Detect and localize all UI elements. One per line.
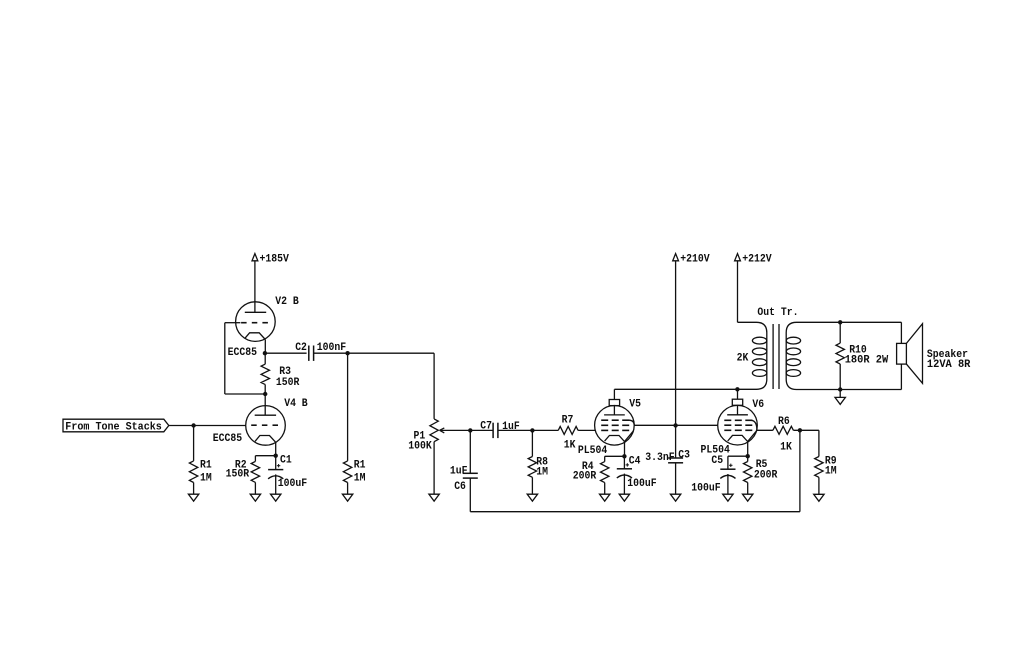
resistor R3 150R: [261, 353, 300, 394]
node wiper junction: [468, 428, 472, 432]
svg-text:C7: C7: [480, 420, 492, 432]
node V6 cathode junction: [746, 454, 750, 458]
svg-text:180R 2W: 180R 2W: [845, 354, 889, 366]
node C7 output junction: [530, 428, 534, 432]
svg-text:100K: 100K: [408, 441, 432, 453]
potentiometer P1 100K: [408, 353, 444, 494]
node R6 output junction: [798, 428, 802, 432]
svg-text:1uF: 1uF: [502, 421, 520, 433]
ground: [619, 494, 629, 501]
ground: [723, 494, 733, 501]
svg-text:+210V: +210V: [680, 253, 710, 265]
ground: [600, 494, 610, 501]
svg-text:100uF: 100uF: [627, 478, 657, 490]
wire: [839, 390, 841, 398]
svg-text:3.3nF: 3.3nF: [645, 452, 675, 464]
capacitor C1 100uF: [268, 455, 307, 495]
svg-text:C6: C6: [454, 481, 466, 493]
node C2 output: [345, 351, 349, 355]
transformer Out Tr primary 2K: [737, 307, 799, 390]
wire feedback riser: [799, 430, 801, 512]
ground: [670, 494, 680, 501]
power +212V: [735, 253, 772, 265]
svg-text:1M: 1M: [825, 466, 837, 478]
svg-text:C1: C1: [280, 455, 292, 467]
node V4 cathode junction: [274, 454, 278, 458]
wire speaker bottom: [840, 389, 901, 391]
resistor R9 1M: [815, 430, 837, 494]
ground: [271, 494, 281, 501]
svg-text:Out Tr.: Out Tr.: [757, 307, 798, 319]
svg-text:From Tone Stacks: From Tone Stacks: [65, 421, 162, 433]
svg-text:100uF: 100uF: [278, 478, 308, 490]
ground: [743, 494, 753, 501]
svg-text:1M: 1M: [354, 473, 366, 485]
resistor R8 1M: [528, 430, 548, 494]
node screen junction: [673, 423, 677, 427]
input tag From Tone Stacks: [63, 419, 169, 433]
wire V5 top cap: [613, 389, 615, 399]
node secondary bottom junction: [838, 387, 842, 391]
wire feedback bottom: [470, 511, 800, 513]
svg-text:12VA 8R: 12VA 8R: [927, 359, 971, 371]
svg-text:PL504: PL504: [578, 445, 608, 457]
svg-text:R6: R6: [778, 416, 790, 428]
resistor R4 200R: [573, 456, 625, 494]
node anode-cathode junction: [263, 351, 267, 355]
node secondary top junction: [838, 320, 842, 324]
svg-text:C3: C3: [678, 449, 690, 461]
capacitor C3 3.3nF: [645, 449, 690, 494]
node input junction: [191, 423, 195, 427]
transformer core: [773, 324, 779, 389]
svg-text:V5: V5: [629, 399, 641, 411]
svg-text:200R: 200R: [573, 471, 597, 483]
wire speaker top: [840, 321, 901, 323]
tube V2 ECC85 triode: [228, 296, 299, 359]
ground: [527, 494, 537, 501]
svg-text:100uF: 100uF: [691, 482, 721, 494]
ground: [835, 397, 845, 404]
svg-text:100nF: 100nF: [317, 342, 347, 354]
svg-text:200R: 200R: [754, 470, 778, 482]
power +185V: [252, 253, 289, 265]
wire input: [169, 425, 246, 427]
svg-text:1K: 1K: [564, 440, 576, 452]
svg-text:+185V: +185V: [260, 253, 290, 265]
capacitor C7 1uF: [470, 420, 532, 438]
capacitor C2 100nF: [265, 342, 434, 361]
svg-text:V4 B: V4 B: [284, 398, 308, 410]
resistor R6 1K: [757, 416, 819, 453]
svg-text:ECC85: ECC85: [228, 347, 258, 359]
ground: [188, 494, 198, 501]
capacitor C6 1uF: [450, 430, 478, 511]
capacitor C5 100uF: [691, 455, 747, 495]
svg-text:150R: 150R: [226, 469, 250, 481]
wire: [254, 261, 256, 313]
svg-text:+212V: +212V: [742, 253, 772, 265]
capacitor C4 100uF: [617, 456, 657, 495]
svg-text:R1: R1: [200, 460, 212, 472]
wire: [264, 394, 266, 415]
power +210V: [673, 253, 710, 265]
tube V4 ECC85 triode: [213, 398, 308, 456]
tube V5 PL504 pentode: [578, 399, 641, 457]
wire: [900, 364, 902, 389]
svg-text:R7: R7: [562, 414, 574, 426]
wire: [225, 393, 265, 395]
node R3 bottom junction: [263, 392, 267, 396]
svg-text:V2 B: V2 B: [275, 296, 299, 308]
svg-text:C4: C4: [629, 456, 641, 468]
ground: [250, 494, 260, 501]
wire screen rail: [634, 424, 718, 426]
resistor R5 200R: [744, 456, 778, 494]
wire: [737, 261, 739, 323]
resistor R10 180R 2W: [836, 322, 888, 389]
svg-text:1M: 1M: [200, 473, 212, 485]
svg-text:2K: 2K: [737, 353, 749, 365]
ground: [342, 494, 352, 501]
resistor R1 1M second: [343, 353, 365, 494]
ground: [814, 494, 824, 501]
node V5 cathode junction: [622, 454, 626, 458]
svg-text:C5: C5: [711, 455, 723, 467]
tube V6 PL504 pentode: [701, 389, 765, 456]
svg-text:1M: 1M: [536, 467, 548, 479]
svg-text:ECC85: ECC85: [213, 433, 243, 445]
wire: [224, 323, 226, 394]
resistor R1 1M: [189, 426, 212, 495]
svg-text:C2: C2: [295, 342, 307, 354]
wire: [900, 322, 902, 343]
wire anode rail: [614, 388, 737, 390]
resistor R2 150R: [226, 456, 276, 495]
speaker 12VA 8R: [897, 324, 971, 384]
svg-text:V6: V6: [752, 399, 764, 411]
svg-text:1uF: 1uF: [450, 466, 468, 478]
svg-text:1K: 1K: [780, 441, 792, 453]
wire grid V2: [225, 322, 241, 324]
svg-text:150R: 150R: [276, 377, 300, 389]
ground: [429, 494, 439, 501]
transformer secondary: [786, 322, 840, 389]
svg-text:R1: R1: [354, 460, 366, 472]
wire screen supply: [675, 261, 677, 458]
resistor R7 1K: [532, 414, 595, 451]
node anode junction: [735, 387, 739, 391]
wire wiper: [440, 429, 470, 431]
